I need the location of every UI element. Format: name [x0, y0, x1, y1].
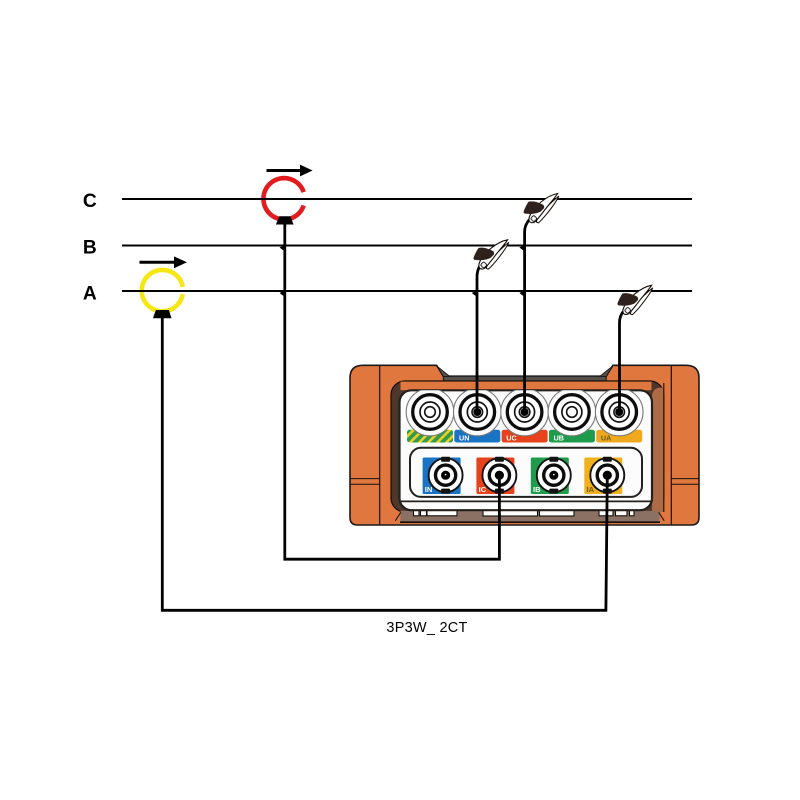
- alligator clip on C: [524, 194, 559, 223]
- band left wedge: [437, 366, 450, 376]
- strip tabs: [414, 510, 635, 516]
- BNC IC: [482, 457, 516, 494]
- terminal E (earth): [413, 395, 448, 430]
- yellow clamp tab: [153, 310, 172, 318]
- IA tab: [584, 458, 622, 495]
- terminal UN dot: [473, 408, 481, 416]
- terminal UC dot: [521, 408, 529, 416]
- svg-text:IB: IB: [533, 485, 541, 494]
- svg-text:UN: UN: [459, 434, 469, 443]
- UC tab: [502, 430, 548, 443]
- terminal UN: [460, 395, 495, 430]
- junction: UC probe wire crossing line B: [519, 242, 525, 251]
- junction: IC wire crossing line A: [280, 288, 286, 297]
- svg-text:IA: IA: [587, 485, 595, 494]
- alligator clip on A: [618, 285, 653, 314]
- orange strip above panel: [401, 382, 652, 391]
- recess frame: [391, 381, 664, 512]
- terminal UA dot: [615, 408, 623, 416]
- earth tab: [407, 430, 453, 443]
- svg-text:UA: UA: [601, 434, 611, 443]
- wire: red clamp to IC: [285, 224, 500, 559]
- alligator clip on B: [474, 240, 509, 269]
- top recess gray band: [443, 376, 606, 381]
- svg-text:UB: UB: [554, 434, 564, 443]
- BNC panel: [410, 448, 642, 497]
- band right wedge: [600, 366, 613, 376]
- phase line A: [122, 290, 692, 292]
- left wing seams: [350, 478, 379, 480]
- svg-text:IN: IN: [425, 485, 433, 494]
- svg-text:3P3W_ 2CT: 3P3W_ 2CT: [386, 620, 467, 636]
- red clamp tab: [276, 216, 294, 224]
- BNC IN: [429, 457, 463, 494]
- junction: UC probe wire crossing line A: [519, 288, 525, 297]
- terminal UB: [555, 395, 590, 430]
- bottom brown strip: [401, 511, 660, 522]
- arrow over yellow clamp: [140, 261, 176, 264]
- wire: probe C to UC: [525, 220, 530, 412]
- main white panel: [400, 390, 653, 510]
- junction: UN probe wire crossing line A: [472, 288, 478, 297]
- right wing seams: [671, 478, 698, 480]
- recess right lighter band: [652, 388, 664, 513]
- BNC IA: [590, 457, 624, 494]
- device body: [350, 365, 699, 525]
- terminal surrounds: [406, 388, 643, 436]
- panel separation line: [401, 500, 652, 502]
- bottom-left diagonal seam: [395, 512, 401, 521]
- svg-text:IC: IC: [479, 485, 487, 494]
- wire: probe B to UN: [477, 266, 480, 412]
- right seam: [670, 366, 672, 525]
- UB tab: [549, 430, 595, 443]
- arrow over red clamp: [267, 169, 302, 172]
- IN tab: [423, 458, 461, 495]
- BNC IB: [537, 457, 571, 494]
- wire: yellow clamp to IA: [162, 318, 607, 610]
- svg-text:A: A: [83, 283, 97, 304]
- phase line C: [122, 198, 692, 200]
- terminal UC: [507, 395, 542, 430]
- svg-text:C: C: [83, 191, 97, 212]
- junction: IC wire crossing line B: [280, 242, 286, 251]
- svg-text:B: B: [83, 238, 97, 259]
- left seam: [379, 366, 381, 525]
- terminal UA: [602, 395, 637, 430]
- UN tab: [454, 430, 500, 443]
- BNC IA center dot: [603, 471, 612, 480]
- IB tab: [531, 458, 569, 495]
- IC tab: [476, 458, 514, 495]
- CT clamp (yellow, phase A): [142, 270, 183, 311]
- BNC IC center dot: [495, 471, 504, 480]
- bottom-right diagonal seam: [659, 512, 665, 521]
- phase line B: [122, 245, 692, 247]
- UA tab: [596, 430, 642, 443]
- svg-text:UC: UC: [506, 434, 516, 443]
- wire: probe A to UA: [620, 312, 624, 412]
- CT clamp (red, phase C): [263, 178, 303, 219]
